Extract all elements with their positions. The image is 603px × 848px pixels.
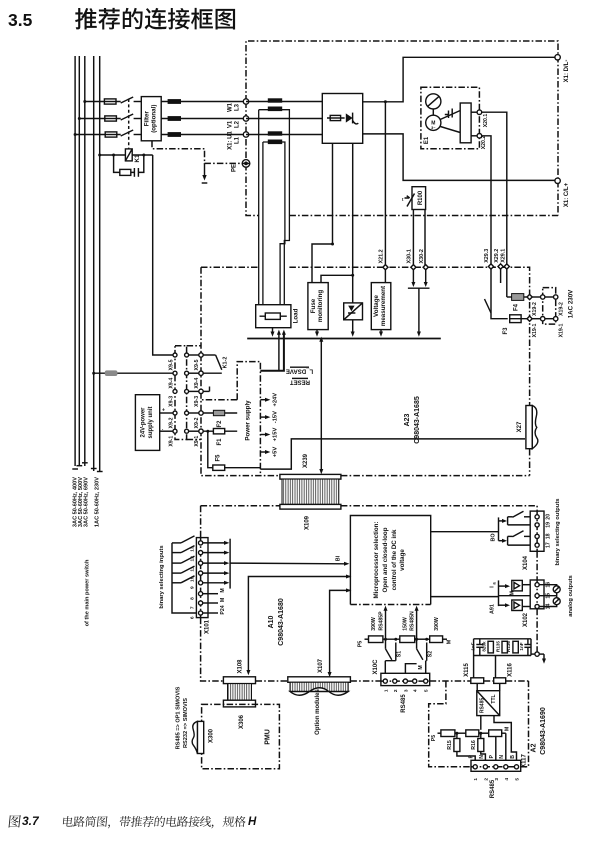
svg-text:C98043-A1680: C98043-A1680	[278, 598, 285, 646]
svg-text:X116: X116	[508, 662, 514, 676]
svg-text:L3: L3	[235, 103, 241, 111]
svg-text:RS485N: RS485N	[410, 611, 416, 631]
svg-text:R136: R136	[506, 641, 511, 652]
wires X1 to rectifier	[246, 102, 322, 135]
svg-text:of the main power switch: of the main power switch	[85, 559, 91, 626]
binary input switches	[172, 542, 181, 544]
svg-text:X1: U1: X1: U1	[228, 131, 234, 150]
svg-text:BO: BO	[490, 533, 496, 541]
RS485-TTL converter	[476, 683, 478, 690]
svg-text:1: 1	[383, 689, 389, 692]
terminal X19-1 (board)	[527, 316, 532, 321]
thermostat switch contact	[490, 269, 492, 313]
svg-text:24V-power: 24V-power	[141, 407, 147, 438]
svg-text:1nF: 1nF	[471, 642, 476, 650]
microprocessor box	[350, 516, 430, 605]
ribbon connector X108	[223, 677, 255, 684]
svg-text:20: 20	[546, 514, 552, 520]
svg-text:3~: 3~	[431, 126, 436, 130]
resistor R16	[480, 733, 482, 738]
terminal X1 L3	[243, 99, 248, 104]
voltage measurement box	[371, 283, 391, 330]
svg-text:X107: X107	[318, 658, 324, 673]
svg-text:X101: X101	[205, 619, 211, 634]
svg-text:X108: X108	[238, 659, 244, 674]
output meters	[539, 585, 557, 607]
svg-text:N: N	[479, 755, 485, 759]
X117 pins	[473, 765, 477, 769]
connector X107 (option modules)	[288, 677, 351, 683]
external 230V connector	[543, 288, 556, 325]
svg-text:X21.2: X21.2	[378, 249, 384, 263]
svg-text:control of the DC ink: control of the DC ink	[391, 529, 398, 590]
load wire to bus	[272, 328, 274, 332]
connector X115	[471, 678, 484, 684]
svg-text:X109: X109	[305, 515, 311, 530]
svg-text:X1: C/L+: X1: C/L+	[564, 182, 570, 207]
svg-text:RS485: RS485	[490, 779, 496, 798]
board A10 boundary (dash-dot)	[201, 506, 537, 681]
svg-text:X117: X117	[522, 753, 528, 767]
fan impeller E1	[426, 94, 441, 109]
svg-text:9: 9	[190, 586, 196, 589]
gating unit box	[344, 303, 363, 320]
svg-text:X20.1: X20.1	[483, 114, 489, 128]
DC- wire to terminal X1 C/L+	[363, 134, 556, 181]
svg-text:X29.1: X29.1	[500, 249, 506, 263]
svg-text:2: 2	[483, 778, 489, 781]
board A23 boundary (dash-dot)	[201, 267, 530, 475]
capacitor 1nF (right)	[527, 639, 529, 645]
1AC feed wire with bead to X9-4	[94, 372, 173, 374]
svg-text:P5: P5	[431, 735, 437, 741]
svg-text:A23: A23	[404, 413, 411, 426]
svg-text:F3: F3	[503, 327, 509, 335]
ground arrow	[539, 653, 544, 655]
capacitor 1nF (left)	[479, 639, 481, 645]
fuse monitoring links	[312, 244, 353, 283]
svg-text:+5V: +5V	[273, 447, 279, 458]
ferrite bead y=101.5	[168, 99, 181, 104]
svg-text:12: 12	[190, 556, 196, 562]
line fuse at y=118.5	[105, 116, 117, 121]
svg-text:3: 3	[403, 689, 409, 692]
svg-text:4: 4	[504, 778, 510, 781]
rectifier leg wires down	[332, 143, 334, 244]
svg-text:5: 5	[515, 778, 521, 781]
ferrite bead y=134.5	[168, 132, 181, 137]
wires R100 to X30	[412, 210, 414, 284]
svg-text:W1: W1	[228, 102, 234, 112]
svg-text:supply unit: supply unit	[148, 407, 154, 439]
svg-text:Fuse: Fuse	[310, 298, 317, 313]
X102 pins	[535, 583, 539, 587]
X101 pins	[199, 541, 203, 545]
svg-text:P: P	[469, 754, 475, 758]
svg-text:X30-1: X30-1	[407, 249, 413, 263]
fan assembly enclosure (dash-dot)	[421, 87, 480, 148]
svg-text:R16: R16	[471, 740, 477, 750]
K1-2 aux contact	[203, 354, 215, 356]
svg-text:2: 2	[393, 689, 399, 692]
relay contact group 1	[499, 520, 503, 522]
24V power supply unit	[135, 395, 159, 451]
main switch contact y=134.5	[121, 130, 134, 136]
fan motor M	[426, 115, 441, 130]
svg-text:1AC 50-60Hz, 230V: 1AC 50-60Hz, 230V	[95, 477, 101, 527]
svg-text:(optional): (optional)	[151, 105, 158, 133]
svg-text:Load: Load	[293, 308, 300, 323]
contactor K1 coil	[100, 154, 126, 156]
svg-text:X9-1: X9-1	[168, 436, 174, 447]
svg-text:PMU: PMU	[265, 729, 272, 745]
svg-text:X9-2: X9-2	[168, 417, 174, 428]
svg-text:17: 17	[546, 542, 552, 548]
svg-text:X102: X102	[523, 612, 529, 627]
svg-text:P24: P24	[220, 605, 226, 614]
svg-text:1: 1	[473, 778, 479, 781]
X9 plug pins X9-4	[187, 372, 201, 374]
svg-text:X104: X104	[523, 555, 529, 570]
svg-text:X20.2: X20.2	[481, 136, 487, 150]
fuse F2	[203, 412, 237, 414]
svg-text:X19-1: X19-1	[532, 323, 538, 337]
svg-text:X306: X306	[239, 714, 245, 729]
connector X116	[494, 678, 506, 684]
X9 plug pins X9-3	[187, 390, 201, 392]
svg-text:A2: A2	[531, 743, 538, 752]
svg-text:X29.3: X29.3	[484, 249, 490, 263]
wires to X117 pins	[457, 752, 475, 761]
1AC supply rails	[94, 56, 100, 471]
svg-text:R15: R15	[447, 740, 453, 750]
terminal X30-1	[411, 265, 416, 270]
svg-text:PE: PE	[232, 164, 238, 172]
svg-text:Option modules: Option modules	[315, 689, 321, 735]
svg-text:Filter: Filter	[143, 111, 150, 127]
svg-text:390W: 390W	[434, 617, 440, 631]
svg-text:B: B	[510, 755, 516, 759]
fuse monitoring wire to bus	[316, 330, 318, 332]
wire rectifier to X21.2 / voltage sense	[384, 102, 386, 283]
X104 pins	[535, 515, 539, 519]
resistor R135	[502, 641, 507, 653]
wire microprocessor to X107	[330, 590, 351, 673]
connector X10C	[381, 673, 430, 685]
svg-text:-15V: -15V	[273, 411, 279, 423]
svg-text:M: M	[447, 639, 453, 644]
fan terminal block	[460, 103, 471, 143]
line fuse at y=134.5	[105, 132, 117, 137]
fuse F1	[203, 430, 237, 432]
connector X104	[530, 511, 544, 551]
wire X20.1 down to X29.1	[482, 112, 507, 264]
filter earth path (dash-dot)	[152, 141, 242, 164]
svg-text:820k: 820k	[481, 641, 486, 652]
svg-text:S1: S1	[397, 651, 403, 657]
RS485P pull line	[385, 611, 387, 649]
power supply unit (dash-dot)	[201, 362, 260, 476]
relay contact group 2	[499, 540, 503, 542]
svg-text:analog outputs: analog outputs	[568, 575, 574, 617]
X101 reference pins P24/M/M	[203, 593, 218, 595]
load resistor box	[256, 305, 291, 328]
wire phase y=134.5	[75, 134, 141, 136]
3AC supply rails	[75, 56, 85, 466]
1AC rail end marks	[91, 469, 103, 472]
svg-text:8: 8	[190, 597, 196, 600]
svg-text:Power supply: Power supply	[245, 400, 252, 441]
wires network to X115/X116	[473, 656, 475, 678]
svg-text:X300: X300	[209, 728, 215, 743]
thermostat R100	[412, 187, 426, 210]
svg-text:R135: R135	[495, 641, 500, 652]
fuse F4	[506, 269, 508, 297]
amplifier A91	[499, 604, 506, 606]
svg-text:X19-2: X19-2	[559, 302, 565, 316]
connector X300	[197, 721, 203, 753]
switch S1	[386, 649, 392, 660]
svg-text:RS485: RS485	[480, 698, 486, 714]
RC network rails	[474, 639, 531, 656]
svg-text:S2: S2	[428, 651, 434, 657]
svg-text:5: 5	[424, 689, 430, 692]
svg-text:H: H	[248, 816, 257, 828]
internal signal bus	[247, 338, 441, 340]
earth arrow	[204, 163, 206, 175]
svg-text:X9-1: X9-1	[194, 436, 200, 447]
svg-text:X9-2: X9-2	[194, 417, 200, 428]
RS485N pull line	[416, 611, 418, 649]
PMU box (dash-dot)	[202, 704, 280, 768]
BI wire to microprocessor	[230, 562, 344, 565]
svg-text:+15V: +15V	[273, 428, 279, 442]
svg-text:18: 18	[546, 533, 552, 539]
terminal X29.1	[504, 264, 509, 269]
svg-text:3AC 50-60Hz, 690V: 3AC 50-60Hz, 690V	[83, 477, 89, 527]
svg-text:F1: F1	[217, 438, 223, 446]
svg-text:RS232 => SIMOVIS: RS232 => SIMOVIS	[183, 698, 189, 748]
svg-text:N: N	[499, 755, 505, 759]
fuse F3	[510, 315, 521, 323]
analog M reference	[499, 595, 531, 597]
svg-text:X9-3: X9-3	[194, 396, 200, 407]
supply output +5V	[260, 451, 265, 453]
svg-text:1AC 230V: 1AC 230V	[568, 289, 575, 318]
input wires to board	[203, 542, 225, 544]
connector X117	[471, 760, 521, 771]
svg-text:C98043-A1685: C98043-A1685	[414, 396, 421, 444]
figure caption 图3.7	[9, 815, 22, 827]
svg-text:binary selecting outputs: binary selecting outputs	[555, 499, 561, 566]
wire K1 coil to X9-5	[153, 155, 175, 355]
svg-text:L_DSAVE: L_DSAVE	[286, 368, 313, 374]
ribbon connector X239	[280, 474, 341, 479]
ribbon connector X109	[280, 504, 341, 509]
svg-text:Microprocessor selection:: Microprocessor selection:	[373, 521, 380, 598]
connector X27	[526, 406, 532, 449]
svg-text:L2: L2	[235, 120, 241, 128]
svg-text:3.7: 3.7	[22, 814, 40, 828]
svg-text:6: 6	[190, 616, 196, 619]
svg-text:M: M	[505, 727, 511, 731]
svg-text:RS485: RS485	[401, 694, 407, 713]
wire phase y=101.5	[85, 101, 142, 103]
svg-text:A10: A10	[268, 615, 275, 628]
wire phase y=118.5	[79, 118, 141, 120]
switch S2	[417, 649, 423, 660]
resistor R15	[456, 733, 458, 738]
svg-text:X30-2: X30-2	[419, 249, 425, 263]
svg-text:X19-1: X19-1	[559, 323, 565, 337]
svg-text:M: M	[510, 591, 516, 595]
svg-text:measurement: measurement	[380, 286, 387, 326]
binary input common bus	[172, 543, 196, 613]
svg-text:V1: V1	[228, 120, 234, 128]
current transformer bars y=134.5	[268, 131, 282, 135]
svg-text:P: P	[489, 754, 495, 758]
X9 plug pins X9-2	[187, 412, 201, 414]
line fuse at y=101.5	[104, 99, 116, 104]
DC+ wire to terminal X1 D/L-	[363, 57, 556, 102]
svg-text:19: 19	[546, 522, 552, 528]
X10C pins	[383, 679, 387, 683]
terminal X1 L2	[243, 116, 248, 121]
svg-text:X9-4: X9-4	[194, 378, 200, 389]
svg-text:K1-2: K1-2	[223, 357, 229, 369]
svg-text:RS485P: RS485P	[378, 611, 384, 631]
svg-text:X29.2: X29.2	[494, 249, 500, 263]
terminal X30-2	[423, 265, 428, 270]
terminal X21.2	[383, 265, 388, 270]
svg-text:F4: F4	[514, 303, 520, 311]
svg-text:Voltage: Voltage	[373, 294, 380, 316]
svg-text:X9-4: X9-4	[168, 378, 174, 389]
fuse F5	[208, 431, 261, 468]
converter unit enclosure (dash-dot)	[246, 41, 558, 216]
wire power supply to X27	[260, 439, 525, 469]
terminal X1 PE	[242, 160, 250, 168]
DC bus bar outer	[259, 110, 290, 305]
svg-text:X9-5: X9-5	[194, 359, 200, 370]
main switch contact y=118.5	[121, 114, 134, 120]
fan terminals X20.1 X20.2	[477, 110, 482, 115]
board A2 boundary (dash-dot)	[429, 681, 529, 767]
X9 plug housing (dash-dot)	[175, 346, 187, 440]
svg-text:10: 10	[190, 576, 196, 582]
supply output +24V	[260, 399, 265, 401]
terminal X29.2	[498, 264, 503, 269]
svg-text:C98043-A1690: C98043-A1690	[540, 707, 547, 755]
DC bus bar inner	[263, 142, 285, 305]
connector X101	[196, 538, 208, 618]
terminal X1 L1	[243, 132, 248, 137]
network junction to board edge	[531, 653, 535, 655]
svg-text:P5: P5	[358, 641, 364, 648]
connector X102	[530, 580, 544, 609]
svg-text:+24V: +24V	[273, 393, 279, 407]
X10C M reference	[405, 664, 416, 674]
svg-text:4: 4	[413, 689, 419, 692]
svg-text:+: +	[162, 408, 165, 414]
svg-text:E1: E1	[424, 136, 430, 144]
svg-text:390W: 390W	[371, 617, 377, 631]
wires 24V unit to X9-1/X9-2	[160, 412, 173, 414]
wire microprocessor to X108	[248, 577, 350, 672]
svg-text:X9-5: X9-5	[168, 359, 174, 370]
svg-text:X19-2: X19-2	[532, 302, 538, 316]
supply output +15V	[260, 434, 265, 436]
svg-text:X115: X115	[464, 662, 470, 676]
fuse monitoring box	[308, 283, 328, 330]
resistor 820k	[488, 641, 493, 653]
filter box (optional)	[141, 97, 161, 141]
main switch linkage (dashed)	[128, 99, 130, 149]
current transformer bars y=101.5	[268, 98, 282, 102]
main switch contact y=101.5	[121, 97, 134, 103]
svg-text:X239: X239	[303, 453, 309, 468]
svg-text:X1: D/L-: X1: D/L-	[564, 60, 570, 83]
X9 plug pins X9-5	[187, 354, 201, 356]
ferrite bead y=118.5	[168, 116, 181, 121]
wire X20.2 down to X29.3	[482, 136, 491, 264]
amplifier Ia	[499, 585, 506, 587]
svg-text:L1: L1	[235, 136, 241, 144]
resistor R136	[513, 641, 518, 653]
svg-text:3.5: 3.5	[8, 10, 33, 30]
A2 P/N resistor row	[480, 716, 482, 730]
svg-text:K1: K1	[134, 154, 141, 162]
svg-text:X27: X27	[517, 421, 523, 432]
reset/l_dsave signal path	[260, 334, 284, 371]
svg-text:R100: R100	[418, 190, 424, 205]
svg-text:voltage: voltage	[399, 549, 406, 571]
svg-text:A91: A91	[489, 604, 495, 614]
svg-text:F2: F2	[217, 420, 223, 428]
svg-text:1nF: 1nF	[519, 642, 524, 650]
svg-text:TTL: TTL	[491, 694, 497, 703]
svg-text:150W: 150W	[403, 617, 409, 631]
svg-text:BI: BI	[336, 555, 342, 561]
svg-text:monitoring: monitoring	[317, 290, 324, 323]
wire bus to X239	[320, 341, 322, 470]
svg-text:X9-3: X9-3	[168, 396, 174, 407]
wire X30 sense to signal bus	[418, 288, 420, 332]
supply output -15V	[260, 416, 265, 418]
K1 snubber RC	[114, 155, 144, 172]
thyristor rectifier box	[322, 94, 362, 144]
svg-text:M: M	[418, 665, 424, 669]
svg-text:F5: F5	[215, 454, 221, 462]
svg-text:M: M	[220, 588, 226, 592]
BO feed wire	[431, 531, 499, 533]
svg-text:M: M	[220, 598, 226, 602]
terminal X29.3	[488, 264, 493, 269]
3AC rail end marks	[72, 463, 87, 469]
analog feed wires	[431, 596, 499, 598]
terminal X19-2 (board)	[527, 294, 532, 299]
svg-text:Open and closed-loop: Open and closed-loop	[382, 527, 389, 592]
X9-3 stub	[203, 390, 209, 392]
termination resistor row	[365, 638, 369, 640]
svg-text:X10C: X10C	[373, 659, 379, 675]
svg-text:7: 7	[190, 606, 196, 609]
svg-text:binary selecting inputs: binary selecting inputs	[159, 545, 165, 608]
voltage meas wire to bus	[380, 330, 382, 332]
gating wire to bus	[352, 320, 354, 332]
X9 plug pins X9-1	[187, 430, 201, 432]
svg-text:13: 13	[190, 546, 196, 552]
